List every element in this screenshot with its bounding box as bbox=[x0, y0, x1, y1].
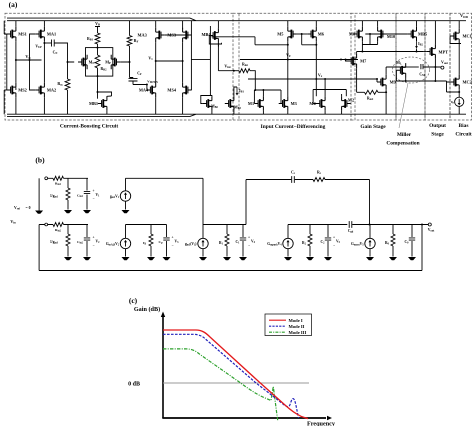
wire M8 drain down bbox=[361, 45, 363, 52]
svg-text:Bias: Bias bbox=[459, 123, 469, 129]
wire MB4 diode loop bbox=[209, 21, 221, 47]
wire M9 source bbox=[385, 89, 387, 92]
wire MC1 diode bbox=[450, 21, 461, 44]
legend mode II bbox=[269, 325, 286, 327]
wire M9 gate from Vx bbox=[376, 79, 378, 82]
transistor MB2 bbox=[203, 96, 212, 110]
curve mode I red bbox=[163, 330, 308, 419]
transistor M3 bbox=[279, 96, 288, 110]
wire M7 drain and source bbox=[356, 52, 358, 93]
svg-text:Vint: Vint bbox=[224, 63, 230, 69]
dashed box: current-boosting circuit bbox=[5, 13, 233, 120]
svg-text:Vout: Vout bbox=[441, 60, 448, 66]
wire Vref input bbox=[38, 178, 40, 210]
wire feedback loop bbox=[421, 224, 423, 226]
wire MB4 drain to input stage bbox=[212, 36, 256, 38]
svg-text:−: − bbox=[92, 244, 94, 248]
dashed ellipse miller compensation bbox=[393, 57, 430, 83]
transistor MS1 bbox=[7, 27, 16, 41]
wire VUP to CN bbox=[44, 42, 51, 44]
current source gm2V1 bbox=[120, 191, 130, 201]
wire M5 M6 gates tie bbox=[297, 33, 307, 35]
svg-text:0 dB: 0 dB bbox=[128, 382, 140, 388]
current source gm5V3 bbox=[198, 238, 208, 248]
svg-text:M3: M3 bbox=[291, 101, 297, 106]
transistor MP bbox=[111, 55, 120, 69]
svg-text:−: − bbox=[171, 244, 173, 248]
transistor M2 bbox=[342, 96, 351, 110]
capacitor Cp bbox=[166, 225, 168, 238]
wire step into input stage bbox=[255, 37, 288, 45]
resistor 1/gm3 bbox=[67, 225, 69, 235]
wire node V5 bbox=[288, 224, 347, 226]
svg-text:Cgd: Cgd bbox=[348, 229, 354, 234]
transistor M7 bbox=[348, 54, 357, 68]
transistor MB1 bbox=[98, 96, 107, 110]
transistor MN bbox=[78, 55, 87, 69]
svg-text:MB4: MB4 bbox=[201, 32, 211, 37]
miller leader line bbox=[399, 83, 408, 128]
svg-text:VDOWN: VDOWN bbox=[147, 80, 158, 85]
wire Rint to M1 gate bus bbox=[250, 71, 255, 90]
transistor MA2 bbox=[35, 83, 44, 97]
capacitor Cin1 bbox=[86, 178, 88, 190]
svg-text:MA2: MA2 bbox=[47, 88, 56, 93]
wire VF line bbox=[240, 59, 358, 61]
wire MS gate bus bbox=[6, 34, 8, 90]
current source GmoutV5 bbox=[365, 238, 375, 248]
svg-text:MA4: MA4 bbox=[139, 87, 149, 92]
resistor R1 bbox=[226, 225, 228, 235]
wire output node bbox=[352, 224, 428, 226]
wire ML source bbox=[405, 78, 407, 82]
wire lower node line bbox=[396, 80, 446, 82]
transistor MC1 bbox=[450, 29, 459, 43]
transistor MPT bbox=[426, 44, 435, 58]
current source IB1 arrow bbox=[236, 87, 238, 94]
transistor MS4 bbox=[183, 83, 192, 97]
svg-text:M1: M1 bbox=[248, 101, 254, 106]
svg-text:1/gm3: 1/gm3 bbox=[50, 240, 59, 245]
svg-text:Compensation: Compensation bbox=[386, 141, 419, 147]
svg-text:−: − bbox=[333, 244, 335, 248]
svg-text:MP: MP bbox=[105, 60, 111, 66]
node MP gate bbox=[129, 61, 131, 63]
wire node V3 bbox=[126, 224, 167, 226]
wire MS3 column bbox=[182, 21, 184, 115]
svg-text:MS4: MS4 bbox=[167, 88, 176, 93]
wire row1 node bbox=[48, 177, 88, 179]
capacitor CM bbox=[421, 64, 423, 69]
curve mode III green bbox=[163, 349, 278, 421]
transistor M6 bbox=[307, 27, 316, 41]
transistor MB2 diode loop bbox=[201, 96, 212, 104]
svg-text:(b): (b) bbox=[35, 156, 45, 165]
svg-text:CN: CN bbox=[53, 51, 58, 56]
resistor RB2 bbox=[95, 55, 100, 68]
svg-text:1/gm1: 1/gm1 bbox=[50, 194, 59, 199]
capacitor Cin2 bbox=[86, 225, 88, 238]
wire MC2 source bbox=[458, 89, 460, 97]
x axis bbox=[162, 417, 326, 419]
wire MC2 gate diode loop bbox=[447, 81, 460, 92]
svg-text:Current-Boosting Circuit: Current-Boosting Circuit bbox=[60, 123, 119, 129]
wire M7 gate from VF bbox=[346, 60, 348, 62]
resistor RB1 bbox=[95, 33, 100, 44]
dashed box: bias circuit bbox=[450, 13, 472, 120]
terminal input row1 bbox=[45, 177, 48, 180]
svg-text:+: + bbox=[92, 236, 94, 240]
svg-text:IB1: IB1 bbox=[239, 89, 244, 94]
resistor 1/gm1 bbox=[67, 178, 69, 188]
wire MPT source to Vout bbox=[434, 59, 436, 67]
svg-text:Vin: Vin bbox=[10, 219, 16, 225]
wire M9 drain bbox=[386, 67, 406, 75]
capacitor C1 bbox=[242, 225, 244, 238]
resistor Rm2 bbox=[357, 91, 365, 93]
capacitor CF bbox=[129, 78, 138, 81]
wire ML drain to node bbox=[406, 66, 419, 68]
svg-text:Mode III: Mode III bbox=[289, 330, 307, 335]
transistor M4 bbox=[316, 96, 325, 110]
dashed box bridge segments bbox=[233, 13, 355, 120]
wire MB5 gate bbox=[406, 33, 408, 35]
current source GmA,B V2 bbox=[120, 238, 130, 248]
legend box bbox=[265, 314, 312, 336]
svg-text:Vref: Vref bbox=[14, 206, 20, 211]
wire bias tap bbox=[191, 21, 210, 90]
terminal Vout bbox=[428, 223, 431, 226]
transistor M10 bbox=[378, 27, 387, 41]
svg-text:−: − bbox=[248, 244, 250, 248]
svg-text:+: + bbox=[248, 236, 250, 240]
svg-text:Cin2: Cin2 bbox=[77, 240, 84, 245]
dashed box: output stage bbox=[425, 13, 450, 120]
wire M1 M3 gate bus bbox=[255, 89, 281, 91]
svg-text:= 0: = 0 bbox=[25, 206, 30, 210]
svg-text:+: + bbox=[92, 189, 94, 193]
wire Vx line bbox=[248, 78, 377, 80]
resistor R0 bbox=[392, 225, 394, 235]
svg-text:RB1: RB1 bbox=[87, 37, 94, 42]
wire V1 link bbox=[156, 60, 183, 62]
ground Vref bbox=[35, 211, 43, 214]
svg-text:−: − bbox=[92, 197, 94, 201]
transistor MB5 bbox=[407, 27, 416, 41]
svg-text:(a): (a) bbox=[9, 0, 18, 9]
bias current source bbox=[455, 97, 464, 106]
wire MA4 gate bbox=[146, 85, 148, 91]
node box bottom bbox=[97, 75, 99, 77]
capacitor C0 bbox=[411, 225, 413, 238]
svg-text:MS3: MS3 bbox=[167, 33, 176, 38]
transistor MB1 diode loop bbox=[98, 92, 112, 96]
ground rail bbox=[7, 114, 466, 116]
svg-text:Gain (dB): Gain (dB) bbox=[134, 306, 160, 313]
svg-text:M5: M5 bbox=[277, 32, 283, 37]
wire node V4 bbox=[203, 224, 246, 226]
svg-text:Miller: Miller bbox=[397, 132, 412, 138]
resistor Rin1 bbox=[53, 176, 64, 180]
transistor MA4 bbox=[147, 83, 156, 97]
svg-text:MPT: MPT bbox=[439, 49, 449, 54]
wire M6 drain down to Vx / M4 bbox=[315, 45, 317, 97]
wire compensation to output node bbox=[369, 180, 371, 225]
svg-text:+: + bbox=[333, 236, 335, 240]
wire CM to Vout bbox=[423, 66, 441, 68]
svg-text:VF: VF bbox=[286, 53, 291, 59]
svg-text:Mode I: Mode I bbox=[289, 318, 303, 323]
transistor MB3 bbox=[225, 96, 234, 110]
wire MS drain column / node VN bbox=[15, 21, 17, 115]
svg-text:Rm2: Rm2 bbox=[367, 97, 374, 102]
transistor MC2 bbox=[450, 75, 459, 89]
transistor MS3 bbox=[183, 28, 192, 42]
current source GmpushV4 bbox=[283, 238, 293, 248]
compensation branch Cc Rc bbox=[246, 179, 291, 181]
transistor M9 bbox=[377, 75, 386, 89]
dashed box: gain stage bbox=[355, 13, 396, 120]
svg-text:MB5: MB5 bbox=[418, 31, 427, 36]
transistor ML bbox=[397, 63, 406, 77]
resistor RF bbox=[129, 21, 131, 36]
capacitor CN bbox=[52, 40, 55, 47]
svg-text:IB2: IB2 bbox=[418, 42, 423, 47]
wire M8 M10 gates tie bbox=[365, 33, 407, 35]
resistor R2 bbox=[309, 225, 311, 235]
node Vout terminal bbox=[441, 66, 444, 69]
svg-text:MN: MN bbox=[89, 60, 96, 66]
svg-text:M9: M9 bbox=[390, 80, 396, 85]
transistor MS2 bbox=[7, 83, 16, 97]
svg-text:RB2: RB2 bbox=[101, 67, 108, 72]
svg-text:Stage: Stage bbox=[431, 131, 444, 137]
current IB2 arrow bbox=[416, 41, 418, 47]
svg-text:Cin1: Cin1 bbox=[77, 194, 84, 199]
svg-text:VDD: VDD bbox=[460, 13, 469, 19]
svg-text:VB: VB bbox=[95, 21, 100, 27]
0 dB line bbox=[163, 382, 309, 384]
svg-text:VUP: VUP bbox=[35, 45, 42, 50]
legend mode I bbox=[269, 319, 286, 321]
svg-text:MA1: MA1 bbox=[47, 32, 56, 37]
resistor Rint bbox=[234, 70, 239, 72]
svg-text:Vx: Vx bbox=[318, 73, 323, 79]
wire box bottom to MB1 bbox=[97, 76, 99, 98]
wire M6 diode loop bbox=[302, 34, 317, 45]
svg-text:MA3: MA3 bbox=[137, 32, 146, 37]
wire VF down to M3 bbox=[287, 60, 289, 97]
wire long column to MB2 bbox=[209, 26, 211, 96]
wire MA3 MS3 gate tie bbox=[165, 34, 192, 36]
svg-text:M7: M7 bbox=[360, 59, 367, 64]
svg-text:MC2: MC2 bbox=[462, 80, 471, 85]
resistor rd bbox=[150, 225, 152, 235]
wire Vout down to lower line bbox=[434, 67, 436, 81]
dashed box: miller/output region bbox=[396, 13, 425, 120]
svg-text:V1: V1 bbox=[148, 56, 153, 62]
resistor RN bbox=[65, 79, 70, 90]
MN-MP connection rectangle bbox=[86, 48, 113, 77]
wire CN to MN gate bbox=[54, 43, 74, 62]
wire Vin to feedback bbox=[39, 225, 45, 271]
transistor M1 bbox=[254, 96, 263, 110]
transistor MB4 bbox=[209, 28, 218, 42]
wire M4 M2 gate bus bbox=[313, 90, 346, 104]
curve mode II blue bbox=[163, 334, 299, 418]
svg-text:Frequency: Frequency bbox=[307, 420, 336, 426]
transistor M8 bbox=[353, 27, 362, 41]
svg-text:MS1: MS1 bbox=[18, 32, 27, 37]
svg-text:Input Current−Differencing: Input Current−Differencing bbox=[261, 124, 326, 130]
svg-text:Mode II: Mode II bbox=[289, 324, 305, 329]
svg-text:Vout: Vout bbox=[428, 228, 435, 233]
legend mode III bbox=[269, 331, 286, 333]
node Vint terminal bbox=[233, 70, 235, 72]
wire V4 to compensation branch bbox=[245, 180, 247, 225]
svg-text:CF: CF bbox=[137, 72, 142, 77]
wire Vint bbox=[218, 43, 233, 71]
svg-text:Cp: Cp bbox=[159, 240, 164, 245]
svg-text:(c): (c) bbox=[129, 296, 138, 305]
transistor MA3 bbox=[156, 28, 165, 42]
svg-text:MB3: MB3 bbox=[234, 106, 241, 111]
wire row1 out bbox=[126, 178, 204, 224]
wire M5 M6 sources to rail bbox=[288, 21, 317, 27]
svg-text:Rint: Rint bbox=[242, 63, 248, 68]
svg-text:Gain Stage: Gain Stage bbox=[360, 124, 386, 130]
svg-text:M8: M8 bbox=[349, 32, 355, 37]
svg-text:+: + bbox=[171, 236, 173, 240]
transistor MA1 bbox=[35, 27, 44, 41]
svg-text:Output: Output bbox=[429, 123, 446, 129]
svg-text:MB2: MB2 bbox=[211, 105, 218, 110]
wire MPT drain to rail bbox=[434, 21, 436, 45]
wire MC1 to MC2 bbox=[458, 43, 460, 75]
wire MA column / node VUP bbox=[43, 21, 45, 115]
node box top bbox=[97, 47, 99, 49]
wire row2 node V2 bbox=[48, 224, 88, 226]
svg-text:M10: M10 bbox=[387, 34, 395, 39]
svg-text:Circuit: Circuit bbox=[455, 131, 472, 137]
svg-text:MB1: MB1 bbox=[89, 101, 98, 106]
svg-text:RF: RF bbox=[134, 38, 139, 44]
wire bias source to ground bbox=[458, 106, 460, 114]
wire ML gate down bbox=[395, 70, 397, 81]
wire M8 M10 sources to rail bbox=[362, 21, 377, 27]
svg-text:RN: RN bbox=[57, 81, 63, 87]
svg-text:CM: CM bbox=[419, 73, 425, 78]
svg-text:MS2: MS2 bbox=[18, 88, 27, 93]
wire M5 drain bbox=[287, 41, 289, 45]
capacitor C2 bbox=[327, 225, 329, 238]
svg-text:ML: ML bbox=[396, 61, 402, 66]
y axis bbox=[162, 316, 164, 418]
svg-text:M6: M6 bbox=[318, 32, 325, 37]
wire left edge bbox=[4, 21, 7, 115]
terminal input row2 bbox=[45, 223, 48, 226]
svg-text:MC1: MC1 bbox=[462, 34, 471, 39]
wire gain stage node bbox=[357, 51, 424, 53]
svg-text:Rin2: Rin2 bbox=[55, 228, 62, 233]
resistor Rin2 bbox=[53, 223, 64, 227]
svg-text:Rin1: Rin1 bbox=[55, 182, 62, 187]
wire MPT gate bbox=[424, 51, 427, 53]
VDD rail bbox=[7, 18, 466, 21]
wire MA gate bus bbox=[30, 34, 36, 90]
svg-text:VN: VN bbox=[25, 54, 31, 60]
svg-text:M2: M2 bbox=[348, 98, 354, 103]
capacitor Cgd series bbox=[349, 221, 352, 228]
wire MA3 column V1 bbox=[155, 21, 157, 115]
transistor M5 bbox=[288, 27, 297, 41]
dashed box: input current-differencing bbox=[239, 13, 351, 120]
